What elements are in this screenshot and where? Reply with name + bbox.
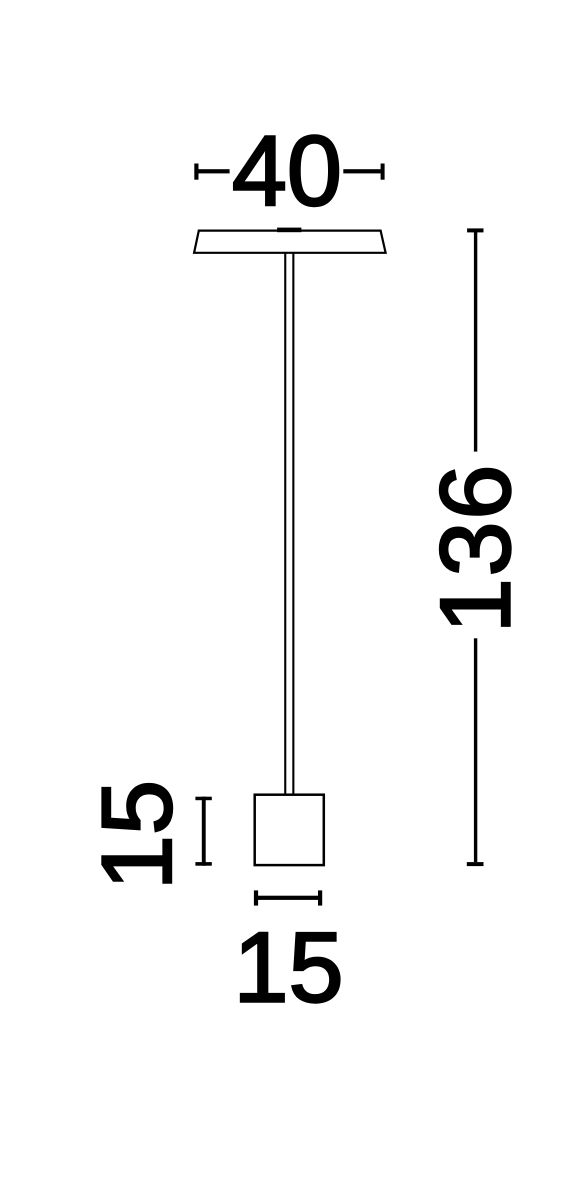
dim-15-left line bbox=[202, 797, 206, 866]
dim-40 left tick bbox=[194, 164, 198, 180]
svg-text:15: 15 bbox=[233, 912, 343, 1023]
dim-40 right segment bbox=[343, 169, 381, 173]
dim-15-bottom left tick bbox=[254, 890, 258, 905]
pole right line bbox=[292, 253, 294, 795]
lamp shade bbox=[194, 231, 386, 253]
svg-text:40: 40 bbox=[232, 115, 342, 226]
dim-40 left segment bbox=[199, 169, 230, 173]
dim-15-left bottom tick bbox=[195, 862, 211, 866]
dim-15-bottom line bbox=[256, 896, 320, 900]
dim-15-bottom right tick bbox=[318, 890, 322, 905]
dim-136 upper segment bbox=[474, 232, 477, 452]
base bbox=[255, 795, 324, 865]
dim-15-left top tick bbox=[195, 797, 211, 801]
dim-136 top tick bbox=[467, 228, 483, 232]
svg-text:15: 15 bbox=[81, 780, 192, 890]
svg-text:136: 136 bbox=[420, 463, 531, 634]
dim-136 lower segment bbox=[474, 638, 477, 862]
pole left line bbox=[284, 253, 286, 795]
dim-40 right tick bbox=[381, 164, 385, 180]
shade knob bbox=[277, 228, 301, 233]
dim-136 bottom tick bbox=[467, 862, 484, 866]
